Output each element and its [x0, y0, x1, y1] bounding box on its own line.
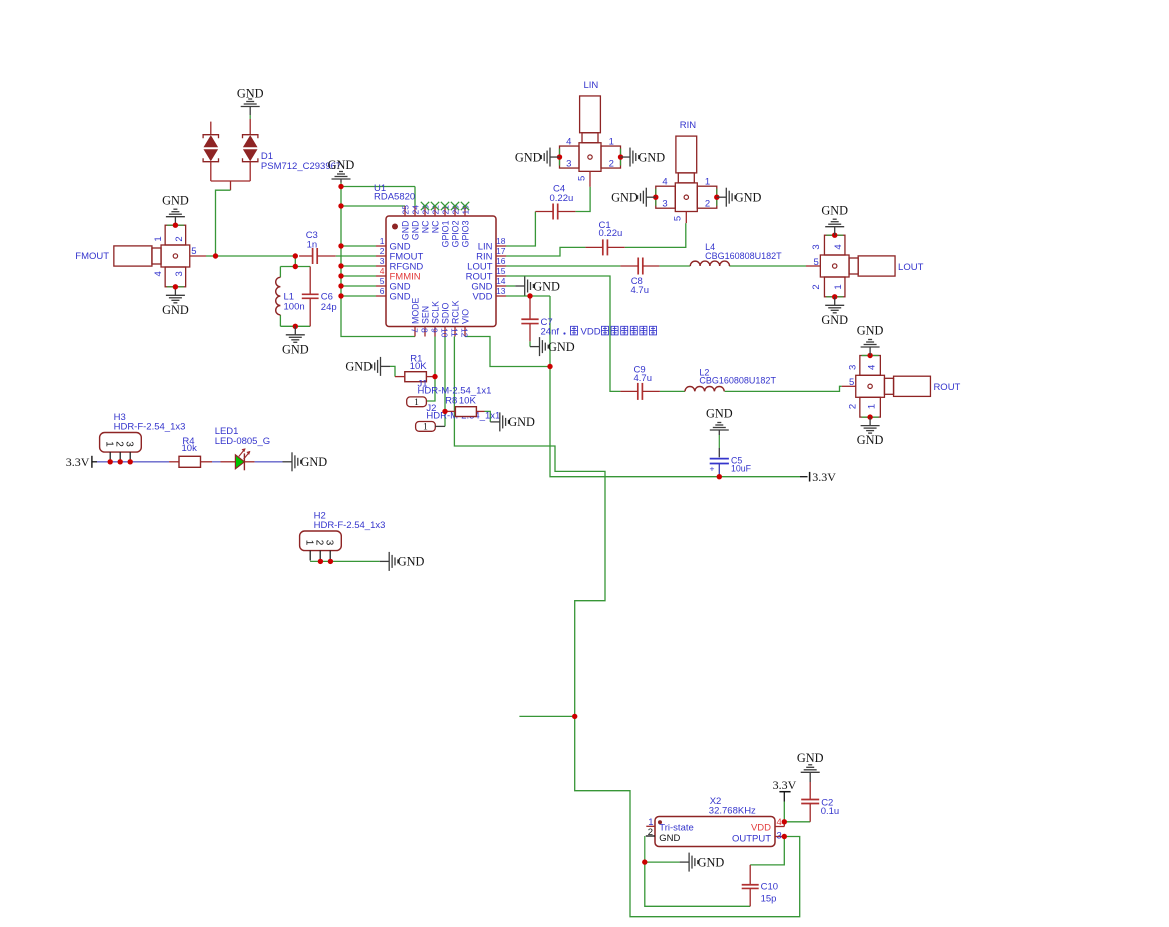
svg-text:4: 4: [380, 266, 385, 276]
svg-text:1: 1: [423, 423, 428, 433]
svg-text:2: 2: [609, 159, 614, 170]
svg-text:GND: GND: [821, 203, 848, 217]
svg-text:GPIO2: GPIO2: [450, 220, 460, 247]
svg-text:Tri-state: Tri-state: [659, 823, 693, 834]
svg-text:6: 6: [380, 286, 385, 296]
svg-text:GPIO3: GPIO3: [460, 220, 470, 247]
svg-text:LIN: LIN: [584, 80, 599, 91]
svg-text:1: 1: [867, 404, 878, 409]
svg-text:18: 18: [496, 236, 506, 246]
svg-text:OUTPUT: OUTPUT: [732, 833, 771, 844]
svg-text:GND: GND: [821, 313, 848, 327]
svg-text:0.1u: 0.1u: [821, 806, 840, 817]
svg-text:GND: GND: [508, 415, 535, 429]
svg-text:GND: GND: [515, 150, 542, 164]
svg-text:3: 3: [811, 244, 822, 249]
svg-text:3.3V: 3.3V: [773, 778, 797, 792]
svg-text:15p: 15p: [761, 894, 777, 905]
svg-text:8: 8: [420, 328, 430, 333]
svg-text:25: 25: [401, 205, 411, 215]
svg-text:0.22u: 0.22u: [599, 228, 623, 239]
svg-text:3: 3: [380, 256, 385, 266]
svg-text:2: 2: [380, 246, 385, 256]
svg-text:4: 4: [777, 817, 782, 828]
svg-text:10K: 10K: [459, 395, 477, 406]
svg-text:15: 15: [496, 266, 506, 276]
svg-text:3: 3: [124, 441, 135, 447]
svg-text:GND: GND: [857, 433, 884, 447]
svg-text:1: 1: [380, 236, 385, 246]
svg-text:1: 1: [705, 176, 710, 187]
svg-text:GND: GND: [398, 555, 425, 569]
svg-text:RCLK: RCLK: [450, 300, 460, 324]
svg-text:4: 4: [153, 271, 164, 276]
svg-text:13: 13: [496, 286, 506, 296]
svg-text:GND: GND: [706, 406, 733, 420]
svg-text:HDR-F-2.54_1x3: HDR-F-2.54_1x3: [314, 520, 386, 531]
svg-text:2: 2: [174, 236, 185, 241]
svg-text:12: 12: [460, 328, 470, 338]
svg-text:GND: GND: [282, 342, 309, 356]
svg-text:5: 5: [191, 246, 196, 257]
svg-text:2: 2: [847, 404, 858, 409]
svg-text:3: 3: [662, 199, 667, 210]
svg-text:14: 14: [496, 276, 506, 286]
svg-text:2: 2: [811, 284, 822, 289]
svg-text:GND: GND: [659, 833, 680, 844]
svg-text:FMOUT: FMOUT: [75, 251, 109, 262]
svg-text:VIO: VIO: [460, 309, 470, 324]
svg-text:NC: NC: [420, 220, 430, 233]
svg-text:11: 11: [450, 328, 460, 337]
svg-text:4: 4: [833, 244, 844, 249]
svg-text:NC: NC: [430, 220, 440, 233]
svg-text:3: 3: [566, 159, 571, 170]
svg-text:SDIO: SDIO: [440, 302, 450, 324]
svg-text:MODE: MODE: [410, 297, 420, 324]
svg-text:ROUT: ROUT: [933, 382, 960, 393]
svg-text:LOUT: LOUT: [898, 262, 924, 273]
svg-text:SEN: SEN: [420, 306, 430, 324]
svg-text:32.768KHz: 32.768KHz: [709, 806, 756, 817]
svg-text:GND: GND: [400, 221, 410, 241]
svg-text:5: 5: [576, 176, 587, 181]
svg-text:1: 1: [304, 540, 315, 546]
svg-text:4: 4: [867, 365, 878, 370]
svg-text:GND: GND: [548, 340, 575, 354]
svg-text:5: 5: [380, 276, 385, 286]
svg-text:17: 17: [496, 246, 506, 256]
svg-text:10k: 10k: [182, 443, 198, 454]
svg-text:GND: GND: [162, 303, 189, 317]
svg-text:1: 1: [609, 136, 614, 147]
svg-text:4.7u: 4.7u: [631, 285, 650, 296]
svg-text:GND: GND: [237, 87, 264, 101]
svg-text:16: 16: [496, 256, 506, 266]
svg-text:GPIO1: GPIO1: [440, 220, 450, 247]
svg-text:C10: C10: [761, 881, 778, 892]
svg-text:GND: GND: [735, 191, 762, 205]
svg-text:VDD: VDD: [472, 291, 492, 302]
svg-text:9: 9: [430, 328, 440, 333]
svg-text:VDD: VDD: [581, 327, 601, 338]
svg-text:C6: C6: [321, 292, 333, 303]
svg-text:1: 1: [833, 284, 844, 289]
svg-text:GND: GND: [533, 279, 560, 293]
svg-text:LED-0805_G: LED-0805_G: [215, 436, 270, 447]
svg-text:5: 5: [673, 216, 684, 221]
svg-text:10K: 10K: [410, 361, 428, 372]
svg-text:3: 3: [324, 540, 335, 546]
svg-text:GND: GND: [390, 291, 411, 302]
svg-text:2: 2: [705, 199, 710, 210]
svg-text:4.7u: 4.7u: [634, 373, 653, 384]
svg-text:HDR-F-2.54_1x3: HDR-F-2.54_1x3: [114, 422, 186, 433]
svg-text:GND: GND: [345, 360, 372, 374]
svg-text:1: 1: [414, 398, 419, 408]
svg-text:CBG160808U182T: CBG160808U182T: [699, 376, 776, 386]
svg-text:24: 24: [411, 205, 421, 215]
svg-text:2: 2: [314, 540, 325, 546]
svg-text:2: 2: [114, 441, 125, 447]
svg-text:4: 4: [566, 136, 571, 147]
svg-text:24p: 24p: [321, 302, 337, 313]
svg-text:1: 1: [153, 236, 164, 241]
svg-text:SCLK: SCLK: [430, 301, 440, 324]
svg-text:GND: GND: [301, 455, 328, 469]
svg-text:RDA5820: RDA5820: [374, 192, 415, 203]
svg-text:GND: GND: [611, 191, 638, 205]
svg-text:VDD: VDD: [751, 823, 771, 834]
svg-text:7: 7: [410, 328, 420, 333]
svg-text:3: 3: [777, 830, 782, 841]
svg-text:3.3V: 3.3V: [66, 455, 90, 469]
svg-text:10: 10: [440, 328, 450, 338]
svg-text:R8: R8: [445, 396, 457, 407]
svg-text:1n: 1n: [307, 240, 318, 251]
svg-text:GND: GND: [857, 324, 884, 338]
svg-text:3.3V: 3.3V: [812, 470, 836, 484]
svg-text:0.22u: 0.22u: [550, 193, 574, 204]
svg-text:2: 2: [648, 827, 653, 838]
svg-text:3: 3: [847, 365, 858, 370]
svg-text:GND: GND: [797, 751, 824, 765]
svg-text:100n: 100n: [284, 301, 305, 312]
svg-text:1: 1: [104, 441, 115, 447]
svg-text:GND: GND: [698, 855, 725, 869]
svg-text:4: 4: [662, 176, 667, 187]
svg-text:GND: GND: [162, 193, 189, 207]
svg-text:GND: GND: [639, 150, 666, 164]
svg-text:+: +: [710, 464, 715, 474]
svg-text:GND: GND: [328, 158, 355, 172]
svg-text:3: 3: [174, 271, 185, 276]
svg-text:CBG160808U182T: CBG160808U182T: [705, 251, 782, 261]
svg-text:RIN: RIN: [680, 120, 697, 131]
svg-text:GND: GND: [410, 221, 420, 241]
svg-text:10uF: 10uF: [731, 464, 752, 474]
svg-text:24nf: 24nf: [541, 327, 560, 338]
